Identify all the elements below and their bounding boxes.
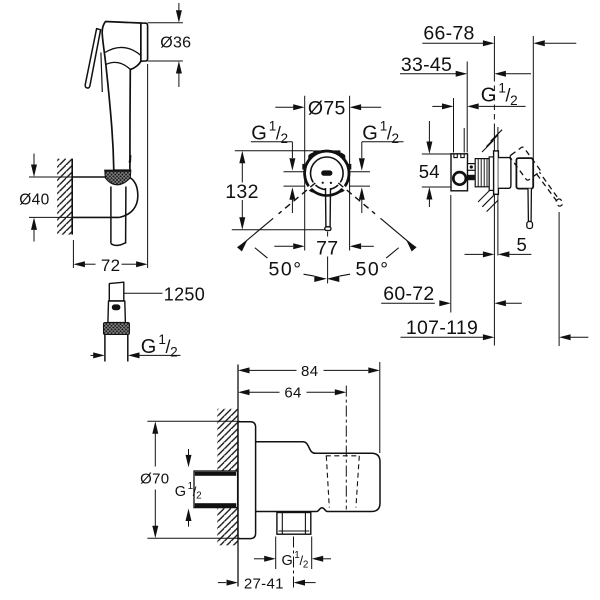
svg-text:72: 72 bbox=[101, 256, 121, 275]
svg-text:84: 84 bbox=[301, 363, 318, 380]
svg-text:77: 77 bbox=[316, 237, 338, 259]
svg-text:27-41: 27-41 bbox=[244, 575, 284, 592]
svg-text:60-72: 60-72 bbox=[383, 283, 434, 305]
svg-text:33-45: 33-45 bbox=[401, 54, 452, 76]
svg-text:54: 54 bbox=[419, 161, 440, 182]
svg-text:Ø40: Ø40 bbox=[19, 192, 49, 209]
svg-text:5: 5 bbox=[517, 234, 528, 255]
svg-text:Ø70: Ø70 bbox=[140, 471, 169, 488]
svg-text:50°: 50° bbox=[269, 258, 303, 280]
svg-text:66-78: 66-78 bbox=[423, 23, 474, 45]
svg-text:Ø75: Ø75 bbox=[308, 97, 346, 119]
svg-text:132: 132 bbox=[225, 181, 258, 203]
svg-text:64: 64 bbox=[284, 384, 301, 401]
svg-text:1250: 1250 bbox=[164, 284, 205, 304]
svg-text:Ø36: Ø36 bbox=[160, 35, 191, 52]
svg-text:50°: 50° bbox=[356, 258, 390, 280]
svg-text:107-119: 107-119 bbox=[406, 317, 478, 339]
